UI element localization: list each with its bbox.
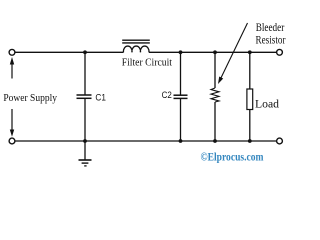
ground: bar 3: [84, 165, 86, 167]
svg-text:C1: C1: [95, 92, 106, 103]
node: top rail junction at bleeder resistor: [213, 50, 217, 54]
svg-text:Filter Circuit: Filter Circuit: [122, 57, 172, 69]
ground: bar 1: [79, 159, 92, 161]
node: top rail junction at C1: [83, 50, 87, 54]
wire: C1 lower lead: [84, 98, 86, 141]
terminal: power supply negative (bottom-left): [9, 138, 15, 144]
svg-text:Load: Load: [255, 99, 279, 111]
wire: load upper lead: [249, 52, 251, 89]
svg-text:Resistor: Resistor: [256, 35, 286, 47]
node: bottom rail junction at C1 / ground: [83, 139, 87, 143]
terminal: power supply positive (top-left): [9, 49, 15, 55]
node: bottom rail junction at C2: [179, 139, 183, 143]
node: top rail junction at C2: [179, 50, 183, 54]
capacitor C2 plates: [174, 94, 188, 96]
ground: stem: [84, 141, 86, 160]
wire: C2 lower lead: [180, 98, 182, 141]
load (rectangle): [247, 89, 253, 110]
node: top rail junction at load: [248, 50, 252, 54]
wire: bottom rail: [15, 140, 276, 142]
node: bottom rail junction at load: [248, 139, 252, 143]
wire: top rail left segment: [15, 51, 123, 53]
ground: bar 2: [82, 162, 89, 164]
wire: load lower lead: [249, 110, 251, 142]
wire: top rail right segment: [149, 51, 276, 53]
svg-text:©Elprocus.com: ©Elprocus.com: [201, 150, 264, 164]
svg-text:C2: C2: [162, 90, 172, 101]
terminal: bottom-right output: [277, 138, 283, 144]
wire: bleeder resistor lower lead: [214, 102, 216, 141]
wire: bleeder resistor upper lead: [214, 52, 216, 88]
inductor L1 core lines: [122, 39, 150, 41]
svg-text:Bleeder: Bleeder: [256, 22, 285, 34]
capacitor C1 plates: [77, 94, 92, 96]
resistor: bleeder (zigzag): [211, 88, 219, 102]
arrow: pointer from Bleeder Resistor label to resistor: [220, 23, 247, 80]
terminal: top-right output: [277, 49, 283, 55]
inductor L1 coil (filter circuit): [123, 46, 149, 52]
svg-text:Power Supply: Power Supply: [3, 92, 57, 104]
arrow: up arrow to positive terminal: [11, 64, 13, 79]
wire: C1 upper lead: [84, 52, 86, 95]
node: bottom rail junction at bleeder resistor: [213, 139, 217, 143]
arrow: down arrow to negative terminal: [11, 109, 13, 130]
wire: C2 upper lead: [180, 52, 182, 95]
